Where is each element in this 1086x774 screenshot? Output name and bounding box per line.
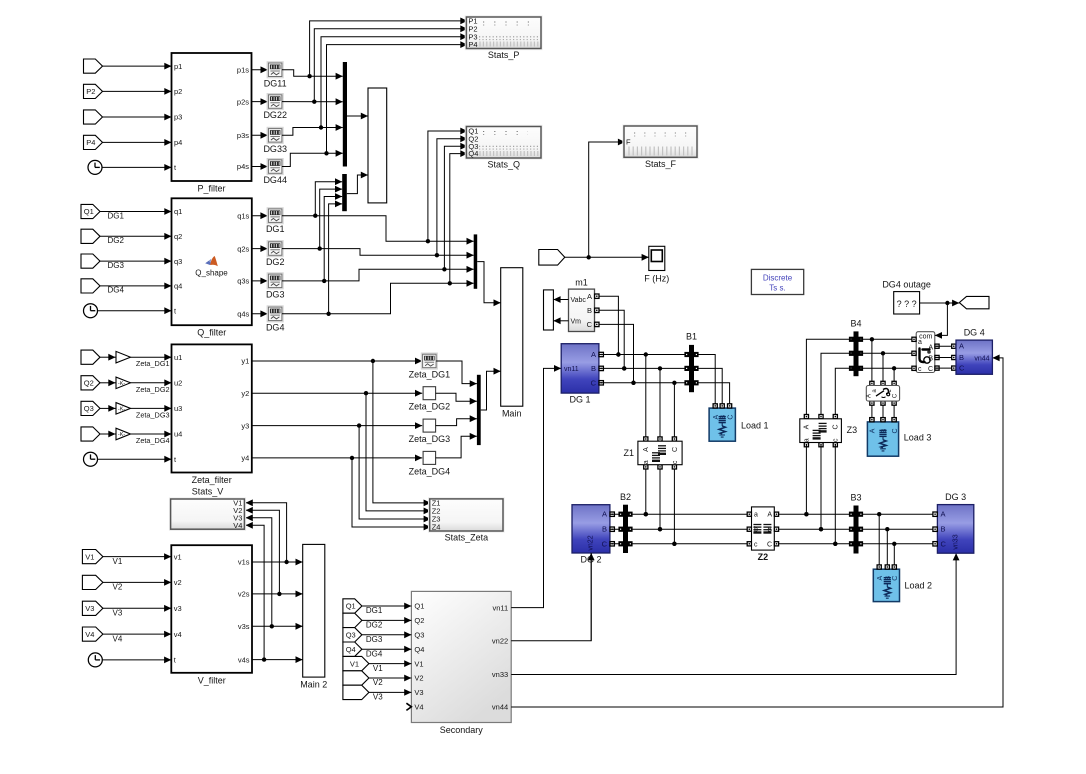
svg-text:C: C bbox=[591, 378, 597, 387]
svg-text:-K-: -K- bbox=[118, 381, 126, 387]
svg-text:DG1: DG1 bbox=[266, 224, 285, 234]
svg-text:p4s: p4s bbox=[237, 162, 249, 171]
svg-text:b: b bbox=[754, 527, 758, 534]
svg-text:q2s: q2s bbox=[237, 244, 249, 253]
svg-text:Q1: Q1 bbox=[414, 602, 424, 611]
svg-text:B: B bbox=[928, 356, 933, 363]
svg-text:V1: V1 bbox=[350, 659, 359, 668]
svg-text:c: c bbox=[672, 460, 679, 464]
svg-text:A: A bbox=[941, 510, 946, 519]
svg-text:vn22: vn22 bbox=[492, 637, 508, 646]
svg-text:Z2: Z2 bbox=[758, 552, 769, 562]
svg-text:Stats_Zeta: Stats_Zeta bbox=[445, 533, 489, 543]
svg-text:Vm: Vm bbox=[571, 319, 582, 326]
svg-text:DG2: DG2 bbox=[266, 257, 285, 267]
svg-text:u4: u4 bbox=[174, 430, 182, 439]
svg-text:Z4: Z4 bbox=[432, 523, 441, 532]
svg-text:y1: y1 bbox=[241, 357, 249, 366]
svg-text:V_filter: V_filter bbox=[198, 675, 226, 685]
svg-text:vn22: vn22 bbox=[588, 535, 595, 550]
svg-text:V2: V2 bbox=[414, 674, 423, 683]
svg-text:q4s: q4s bbox=[237, 310, 249, 319]
svg-text:C: C bbox=[602, 539, 608, 548]
svg-text:C: C bbox=[587, 320, 593, 329]
svg-text:vn33: vn33 bbox=[492, 670, 508, 679]
svg-text:DG4: DG4 bbox=[266, 322, 285, 332]
svg-text:F (Hz): F (Hz) bbox=[644, 274, 669, 284]
svg-text:vn44: vn44 bbox=[974, 355, 989, 362]
svg-text:DG22: DG22 bbox=[263, 110, 287, 120]
svg-text:DG4 outage: DG4 outage bbox=[882, 280, 931, 290]
svg-text:p2s: p2s bbox=[237, 97, 249, 106]
svg-text:DG4: DG4 bbox=[366, 649, 383, 658]
svg-text:vn11: vn11 bbox=[492, 603, 508, 612]
svg-text:m1: m1 bbox=[575, 278, 588, 288]
svg-text:a: a bbox=[804, 438, 811, 442]
svg-text:Q3: Q3 bbox=[414, 631, 424, 640]
svg-text:u1: u1 bbox=[174, 353, 182, 362]
svg-text:A: A bbox=[591, 350, 596, 359]
svg-text:DG1: DG1 bbox=[366, 606, 383, 615]
svg-text:p1s: p1s bbox=[237, 66, 249, 75]
svg-text:Load 1: Load 1 bbox=[741, 420, 769, 430]
svg-text:q4: q4 bbox=[174, 282, 182, 291]
svg-text:C: C bbox=[893, 393, 899, 398]
svg-text:Discrete: Discrete bbox=[763, 273, 793, 282]
svg-text:vn11: vn11 bbox=[564, 366, 579, 373]
svg-text:a: a bbox=[754, 512, 758, 519]
svg-text:P_filter: P_filter bbox=[197, 184, 225, 194]
svg-text:q1s: q1s bbox=[237, 211, 249, 220]
svg-text:Q4: Q4 bbox=[468, 149, 478, 158]
svg-text:Zeta_DG3: Zeta_DG3 bbox=[409, 434, 451, 444]
svg-text:Z3: Z3 bbox=[847, 425, 858, 435]
svg-text:y3: y3 bbox=[241, 421, 249, 430]
svg-text:Q2: Q2 bbox=[84, 379, 94, 388]
svg-text:C: C bbox=[928, 366, 933, 373]
svg-text:q1: q1 bbox=[174, 207, 182, 216]
svg-text:A: A bbox=[602, 510, 607, 519]
svg-text:V4: V4 bbox=[233, 521, 242, 530]
svg-text:A: A bbox=[867, 394, 873, 398]
svg-text:C: C bbox=[767, 541, 772, 548]
svg-text:C: C bbox=[959, 364, 965, 373]
svg-text:V2: V2 bbox=[113, 583, 123, 592]
svg-text:DG1: DG1 bbox=[108, 211, 125, 220]
svg-text:c: c bbox=[918, 366, 922, 373]
svg-text:P2: P2 bbox=[86, 87, 95, 96]
svg-text:V4: V4 bbox=[113, 634, 123, 643]
svg-text:-K-: -K- bbox=[118, 432, 126, 438]
svg-text:V3: V3 bbox=[113, 609, 123, 618]
svg-text:Stats_P: Stats_P bbox=[488, 50, 520, 60]
svg-text:q3s: q3s bbox=[237, 277, 249, 286]
svg-text:DG11: DG11 bbox=[264, 78, 287, 88]
svg-text:v3s: v3s bbox=[238, 622, 250, 631]
svg-text:DG4: DG4 bbox=[108, 286, 125, 295]
svg-text:v2: v2 bbox=[174, 578, 182, 587]
svg-text:DG2: DG2 bbox=[108, 236, 125, 245]
svg-text:DG33: DG33 bbox=[263, 144, 287, 154]
svg-text:p3s: p3s bbox=[237, 131, 249, 140]
svg-text:A: A bbox=[959, 342, 964, 351]
svg-text:Stats_F: Stats_F bbox=[645, 159, 677, 169]
svg-text:C: C bbox=[892, 428, 899, 433]
svg-text:Stats_V: Stats_V bbox=[192, 487, 224, 497]
svg-text:y4: y4 bbox=[241, 454, 249, 463]
svg-text:v3: v3 bbox=[174, 604, 182, 613]
svg-text:C: C bbox=[727, 415, 734, 420]
svg-text:v1s: v1s bbox=[238, 558, 250, 567]
svg-text:DG3: DG3 bbox=[266, 289, 285, 299]
svg-text:Q1: Q1 bbox=[346, 602, 356, 611]
svg-text:a: a bbox=[918, 339, 922, 346]
svg-text:Zeta_DG1: Zeta_DG1 bbox=[409, 370, 451, 380]
svg-text:B: B bbox=[959, 353, 964, 362]
svg-text:Zeta_DG1: Zeta_DG1 bbox=[136, 359, 170, 368]
svg-text:A: A bbox=[804, 424, 811, 429]
svg-text:V1: V1 bbox=[85, 552, 94, 561]
svg-text:DG 1: DG 1 bbox=[569, 395, 590, 405]
svg-text:Q3: Q3 bbox=[84, 404, 94, 413]
svg-text:DG 3: DG 3 bbox=[945, 492, 966, 502]
svg-text:v4: v4 bbox=[174, 630, 182, 639]
svg-text:u2: u2 bbox=[174, 379, 182, 388]
svg-text:p4: p4 bbox=[174, 138, 182, 147]
svg-text:B1: B1 bbox=[686, 332, 697, 342]
svg-text:-K-: -K- bbox=[118, 406, 126, 412]
svg-text:C: C bbox=[833, 424, 840, 429]
svg-text:Q4: Q4 bbox=[414, 645, 424, 654]
svg-text:V1: V1 bbox=[414, 659, 423, 668]
svg-text:F: F bbox=[626, 138, 631, 147]
svg-text:DG3: DG3 bbox=[366, 635, 383, 644]
svg-text:DG44: DG44 bbox=[263, 175, 287, 185]
svg-text:B3: B3 bbox=[850, 493, 861, 503]
svg-text:Q3: Q3 bbox=[346, 631, 356, 640]
svg-text:q3: q3 bbox=[174, 257, 182, 266]
svg-text:Main: Main bbox=[502, 409, 522, 419]
svg-text:Q4: Q4 bbox=[346, 645, 356, 654]
svg-text:C: C bbox=[672, 447, 679, 452]
svg-text:A: A bbox=[877, 576, 884, 581]
svg-text:vn44: vn44 bbox=[492, 703, 508, 712]
svg-text:v4s: v4s bbox=[238, 655, 250, 664]
svg-text:Q2: Q2 bbox=[414, 616, 424, 625]
svg-text:Zeta_filter: Zeta_filter bbox=[192, 475, 232, 485]
svg-text:Stats_Q: Stats_Q bbox=[487, 160, 520, 170]
svg-text:? ? ?: ? ? ? bbox=[897, 299, 917, 309]
svg-text:A: A bbox=[643, 447, 650, 452]
svg-text:C: C bbox=[892, 576, 899, 581]
svg-text:DG3: DG3 bbox=[108, 261, 125, 270]
svg-text:V1: V1 bbox=[113, 557, 123, 566]
svg-text:B: B bbox=[587, 306, 592, 315]
svg-text:Q1: Q1 bbox=[84, 207, 94, 216]
svg-text:P4: P4 bbox=[86, 138, 95, 147]
svg-text:c: c bbox=[833, 438, 840, 442]
svg-text:Ts s.: Ts s. bbox=[769, 283, 785, 292]
svg-text:c: c bbox=[887, 390, 893, 393]
svg-text:B: B bbox=[591, 364, 596, 373]
svg-text:p1: p1 bbox=[174, 62, 182, 71]
svg-text:a: a bbox=[643, 460, 650, 464]
svg-text:Zeta_DG4: Zeta_DG4 bbox=[409, 466, 451, 476]
svg-text:Secondary: Secondary bbox=[440, 725, 484, 735]
svg-text:q2: q2 bbox=[174, 232, 182, 241]
svg-text:Z1: Z1 bbox=[623, 448, 634, 458]
svg-text:y2: y2 bbox=[241, 389, 249, 398]
svg-text:DG 4: DG 4 bbox=[964, 328, 985, 338]
svg-text:B: B bbox=[602, 525, 607, 534]
svg-text:A: A bbox=[767, 512, 772, 519]
svg-text:C: C bbox=[941, 539, 947, 548]
svg-text:V3: V3 bbox=[373, 693, 383, 702]
svg-text:vn33: vn33 bbox=[953, 534, 960, 549]
svg-text:Zeta_DG2: Zeta_DG2 bbox=[409, 402, 451, 412]
svg-text:Q_filter: Q_filter bbox=[197, 328, 226, 338]
svg-text:Load 3: Load 3 bbox=[904, 433, 932, 443]
svg-text:Load 2: Load 2 bbox=[905, 580, 933, 590]
svg-text:c: c bbox=[754, 541, 758, 548]
svg-text:p2: p2 bbox=[174, 87, 182, 96]
svg-text:Zeta_DG2: Zeta_DG2 bbox=[136, 385, 170, 394]
svg-text:DG2: DG2 bbox=[366, 621, 383, 630]
svg-text:v1: v1 bbox=[174, 552, 182, 561]
svg-text:v2s: v2s bbox=[238, 590, 250, 599]
svg-text:V3: V3 bbox=[85, 604, 94, 613]
svg-text:Main 2: Main 2 bbox=[300, 680, 327, 690]
svg-text:Vabc: Vabc bbox=[571, 297, 587, 304]
svg-text:P4: P4 bbox=[468, 40, 477, 49]
svg-text:V4: V4 bbox=[85, 630, 94, 639]
svg-text:A: A bbox=[870, 428, 877, 433]
svg-text:B2: B2 bbox=[620, 492, 631, 502]
svg-text:B: B bbox=[767, 527, 772, 534]
svg-text:u3: u3 bbox=[174, 404, 182, 413]
svg-text:A: A bbox=[587, 292, 592, 301]
svg-text:V3: V3 bbox=[414, 688, 423, 697]
svg-text:Zeta_DG3: Zeta_DG3 bbox=[136, 410, 170, 419]
svg-text:Zeta_DG4: Zeta_DG4 bbox=[136, 436, 170, 445]
svg-text:p3: p3 bbox=[174, 113, 182, 122]
svg-text:B4: B4 bbox=[850, 319, 861, 329]
svg-text:V4: V4 bbox=[414, 703, 423, 712]
svg-text:B: B bbox=[941, 525, 946, 534]
svg-text:Q_shape: Q_shape bbox=[195, 269, 228, 278]
svg-text:V1: V1 bbox=[373, 664, 383, 673]
svg-text:V2: V2 bbox=[373, 678, 383, 687]
